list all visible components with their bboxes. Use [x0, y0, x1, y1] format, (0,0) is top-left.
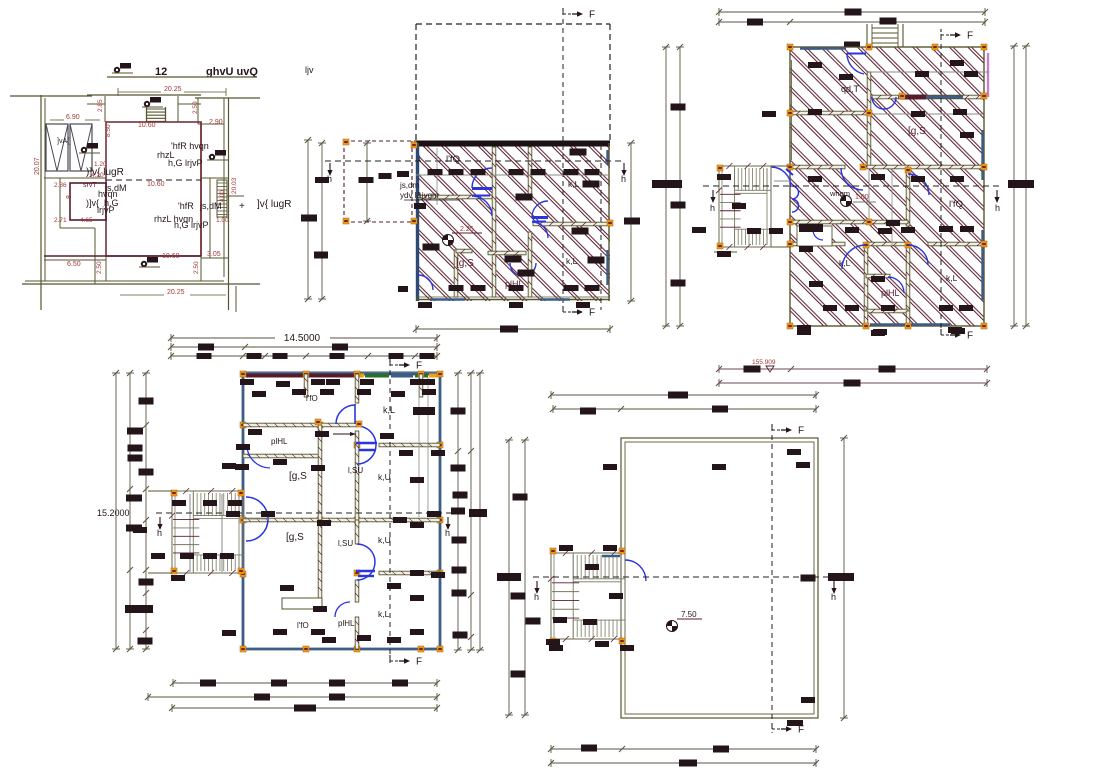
svg-text:l'fO: l'fO — [297, 621, 309, 630]
svg-text:2.90: 2.90 — [209, 119, 223, 126]
svg-text:ljv: ljv — [305, 65, 314, 75]
svg-text:F: F — [798, 725, 804, 736]
svg-text:h,G lrjvP: h,G lrjvP — [174, 220, 209, 230]
svg-text:2.50: 2.50 — [96, 261, 103, 274]
svg-text:'hfR hvqn: 'hfR hvqn — [171, 141, 209, 151]
svg-text:[g,S: [g,S — [289, 471, 307, 482]
svg-text:+: + — [239, 201, 245, 212]
svg-text:6.90: 6.90 — [66, 114, 80, 121]
svg-text:h: h — [621, 174, 626, 184]
svg-text:h: h — [710, 203, 715, 213]
svg-text:k,L: k,L — [566, 256, 578, 266]
svg-text:js,dm: js,dm — [399, 181, 419, 190]
svg-text:whqm: whqm — [829, 189, 850, 198]
svg-text:7.50: 7.50 — [681, 610, 697, 619]
svg-text:1.00: 1.00 — [855, 194, 869, 201]
svg-text:k,L: k,L — [946, 273, 958, 283]
svg-text:[g,S: [g,S — [456, 258, 474, 269]
svg-text:F: F — [416, 657, 422, 668]
svg-text:F: F — [589, 10, 595, 21]
svg-text:4.00: 4.00 — [220, 190, 226, 202]
svg-text:10.60: 10.60 — [162, 253, 180, 260]
svg-text:l,SU: l,SU — [348, 466, 363, 475]
svg-text:plHL: plHL — [271, 437, 288, 446]
svg-text:1.00: 1.00 — [216, 217, 229, 224]
svg-text:8.50: 8.50 — [105, 124, 112, 137]
svg-text:F: F — [967, 31, 973, 42]
svg-text:[g,S: [g,S — [908, 126, 926, 137]
svg-text:[g,S: [g,S — [286, 532, 304, 543]
svg-text:3.05: 3.05 — [207, 251, 221, 258]
svg-text:14.5000: 14.5000 — [284, 333, 321, 344]
svg-text:srvT: srvT — [83, 182, 97, 189]
svg-text:h: h — [445, 528, 450, 538]
svg-text:k,L: k,L — [839, 258, 851, 268]
svg-text:10.60: 10.60 — [138, 122, 156, 129]
svg-text:h: h — [995, 203, 1000, 213]
svg-text:2.86: 2.86 — [54, 182, 67, 189]
svg-text:F: F — [967, 331, 973, 342]
svg-text:l'fQ: l'fQ — [949, 199, 963, 210]
svg-text:2.71: 2.71 — [54, 217, 67, 224]
svg-text:h,G lrjvP: h,G lrjvP — [168, 158, 203, 168]
svg-text:]v{ lugR: ]v{ lugR — [257, 199, 291, 210]
svg-text:2.25: 2.25 — [460, 226, 474, 233]
svg-text:l'fO: l'fO — [306, 394, 318, 403]
svg-text:h: h — [534, 592, 539, 602]
svg-text:2.85: 2.85 — [97, 99, 104, 112]
svg-text:]vA{: ]vA{ — [57, 138, 70, 145]
svg-text:h: h — [831, 592, 836, 602]
svg-text:6.50: 6.50 — [67, 261, 81, 268]
svg-text:12: 12 — [155, 66, 167, 78]
svg-text:20.07: 20.07 — [34, 157, 41, 175]
svg-text:2.50: 2.50 — [192, 101, 199, 114]
svg-text:20.03: 20.03 — [231, 177, 238, 194]
svg-text:ghvU uvQ: ghvU uvQ — [206, 66, 258, 78]
svg-text:k,L: k,L — [383, 405, 395, 415]
svg-text:F: F — [416, 361, 422, 372]
svg-text:20.25: 20.25 — [164, 86, 182, 93]
svg-text:qd,T: qd,T — [841, 84, 860, 94]
svg-text:k,U: k,U — [378, 472, 391, 482]
svg-text:js,dM: js,dM — [199, 201, 222, 211]
svg-text:4.65: 4.65 — [80, 217, 93, 224]
svg-text:8: 8 — [66, 195, 73, 199]
svg-text:F: F — [798, 426, 804, 437]
svg-text:15.2000: 15.2000 — [97, 508, 130, 518]
svg-text:lrjvP: lrjvP — [97, 205, 115, 215]
svg-text:2.50: 2.50 — [193, 261, 200, 274]
svg-text:F: F — [589, 308, 595, 319]
svg-text:plHL: plHL — [338, 619, 355, 628]
svg-text:10.60: 10.60 — [147, 181, 165, 188]
svg-text:1.20: 1.20 — [94, 161, 107, 168]
svg-text:4.20: 4.20 — [91, 172, 104, 179]
svg-text:'hfR: 'hfR — [178, 201, 194, 211]
svg-text:k,L: k,L — [568, 179, 580, 189]
svg-text:155.909: 155.909 — [752, 359, 776, 366]
svg-text:k,U: k,U — [378, 535, 391, 545]
svg-text:l'fQ: l'fQ — [446, 154, 460, 165]
svg-text:l,SU: l,SU — [338, 539, 353, 548]
svg-text:20.25: 20.25 — [167, 289, 185, 296]
svg-text:k,L: k,L — [378, 609, 390, 619]
svg-text:plHL: plHL — [881, 288, 900, 298]
svg-text:ydv l&jvgm: ydv l&jvgm — [400, 191, 439, 200]
svg-text:h: h — [157, 528, 162, 538]
